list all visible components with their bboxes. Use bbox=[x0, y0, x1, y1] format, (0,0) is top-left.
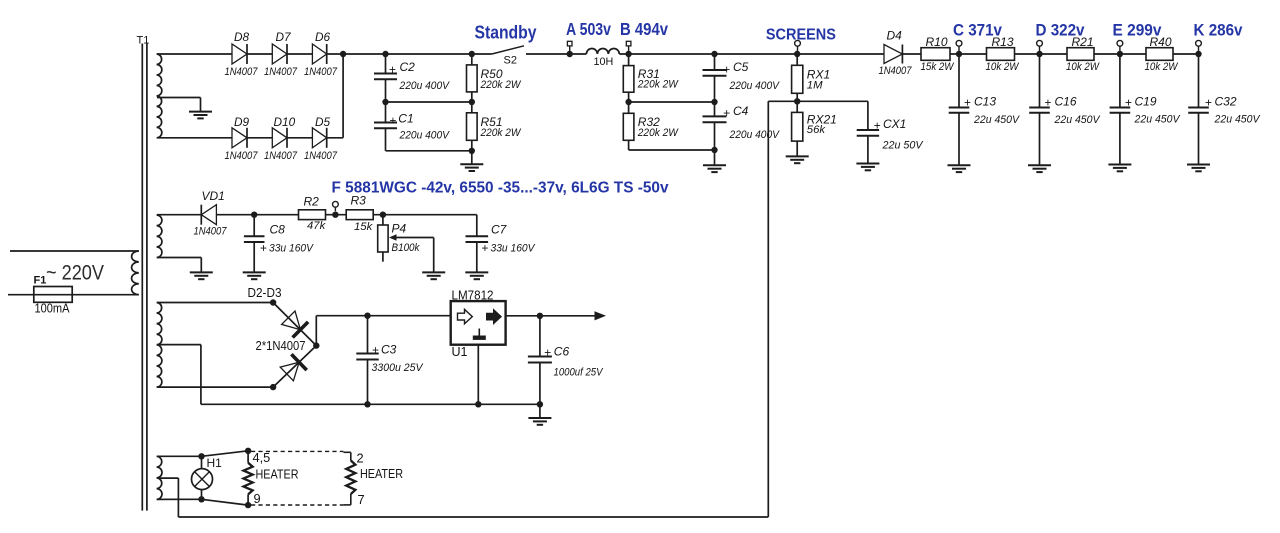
svg-text:HEATER: HEATER bbox=[360, 466, 403, 481]
svg-text:220u 400V: 220u 400V bbox=[729, 80, 781, 92]
svg-text:LM7812: LM7812 bbox=[452, 288, 494, 303]
svg-text:2*1N4007: 2*1N4007 bbox=[256, 338, 306, 353]
svg-text:15k: 15k bbox=[354, 221, 374, 233]
svg-text:D8: D8 bbox=[234, 30, 250, 44]
svg-text:C19: C19 bbox=[1135, 95, 1157, 109]
svg-text:C1: C1 bbox=[398, 112, 413, 126]
svg-text:220k 2W: 220k 2W bbox=[480, 127, 522, 139]
svg-text:33u 160V: 33u 160V bbox=[491, 243, 536, 255]
svg-text:10H: 10H bbox=[594, 56, 614, 68]
svg-text:A 503v: A 503v bbox=[566, 19, 611, 39]
svg-text:7: 7 bbox=[358, 492, 365, 507]
svg-text:+: + bbox=[372, 343, 379, 357]
svg-text:+: + bbox=[544, 345, 551, 359]
svg-text:1N4007: 1N4007 bbox=[304, 66, 338, 78]
svg-text:15k 2W: 15k 2W bbox=[921, 61, 955, 73]
svg-text:C16: C16 bbox=[1055, 95, 1077, 109]
svg-text:47k: 47k bbox=[307, 220, 327, 232]
svg-text:10k 2W: 10k 2W bbox=[986, 61, 1020, 73]
svg-text:+: + bbox=[723, 106, 730, 120]
svg-text:+: + bbox=[874, 119, 881, 133]
svg-text:B 494v: B 494v bbox=[620, 19, 668, 39]
svg-text:1M: 1M bbox=[807, 79, 823, 91]
svg-text:1N4007: 1N4007 bbox=[879, 65, 913, 77]
svg-text:D2-D3: D2-D3 bbox=[248, 286, 282, 300]
svg-text:C5: C5 bbox=[733, 60, 749, 74]
svg-text:R2: R2 bbox=[304, 194, 320, 208]
svg-text:22u 450V: 22u 450V bbox=[1054, 114, 1101, 126]
svg-text:C2: C2 bbox=[400, 60, 416, 74]
svg-text:+: + bbox=[1125, 95, 1132, 109]
svg-text:H1: H1 bbox=[207, 456, 223, 470]
svg-text:1000uf 25V: 1000uf 25V bbox=[554, 367, 604, 379]
svg-text:22u 450V: 22u 450V bbox=[1134, 113, 1181, 125]
svg-text:220u 400V: 220u 400V bbox=[399, 130, 451, 142]
svg-text:S2: S2 bbox=[504, 55, 517, 67]
svg-text:1N4007: 1N4007 bbox=[264, 150, 298, 162]
svg-text:10k 2W: 10k 2W bbox=[1145, 61, 1179, 73]
svg-text:D4: D4 bbox=[887, 29, 903, 43]
svg-text:1N4007: 1N4007 bbox=[225, 66, 259, 78]
svg-text:9: 9 bbox=[254, 491, 261, 506]
svg-text:10k 2W: 10k 2W bbox=[1066, 61, 1100, 73]
svg-text:C3: C3 bbox=[381, 343, 397, 357]
svg-text:+: + bbox=[389, 113, 396, 127]
svg-text:F 5881WGC -42v, 6550 -35...-: F 5881WGC -42v, 6550 -35...-37v, 6L6G TS… bbox=[332, 179, 669, 196]
svg-text:SCREENS: SCREENS bbox=[766, 26, 836, 43]
svg-text:220u 400V: 220u 400V bbox=[729, 129, 781, 141]
svg-text:E 299v: E 299v bbox=[1113, 20, 1162, 39]
svg-text:VD1: VD1 bbox=[202, 189, 225, 203]
svg-text:~ 220V: ~ 220V bbox=[46, 262, 104, 285]
svg-text:220u 400V: 220u 400V bbox=[399, 80, 451, 92]
svg-text:K 286v: K 286v bbox=[1194, 20, 1243, 39]
svg-text:56k: 56k bbox=[807, 124, 827, 136]
svg-text:Standby: Standby bbox=[475, 23, 537, 43]
svg-text:4,5: 4,5 bbox=[253, 450, 271, 465]
svg-text:C32: C32 bbox=[1215, 95, 1237, 109]
svg-text:R10: R10 bbox=[926, 35, 948, 49]
svg-text:1N4007: 1N4007 bbox=[225, 150, 259, 162]
svg-text:100mA: 100mA bbox=[35, 301, 70, 316]
svg-text:22u 450V: 22u 450V bbox=[1214, 113, 1261, 125]
svg-text:22u 450V: 22u 450V bbox=[973, 114, 1020, 126]
svg-text:+: + bbox=[260, 241, 267, 255]
svg-text:3300u 25V: 3300u 25V bbox=[372, 362, 424, 374]
svg-text:C6: C6 bbox=[554, 345, 570, 359]
svg-text:C13: C13 bbox=[974, 95, 996, 109]
svg-text:+: + bbox=[1205, 95, 1212, 109]
svg-text:C8: C8 bbox=[270, 223, 286, 237]
svg-text:U1: U1 bbox=[452, 345, 468, 359]
svg-text:P4: P4 bbox=[392, 221, 407, 235]
svg-text:CX1: CX1 bbox=[883, 117, 906, 131]
svg-text:F1: F1 bbox=[34, 275, 47, 287]
svg-text:D6: D6 bbox=[315, 30, 331, 44]
svg-text:HEATER: HEATER bbox=[256, 467, 299, 482]
svg-text:D 322v: D 322v bbox=[1036, 20, 1085, 39]
svg-text:D5: D5 bbox=[315, 115, 331, 129]
svg-text:D7: D7 bbox=[276, 30, 292, 44]
svg-text:C 371v: C 371v bbox=[953, 20, 1002, 39]
svg-text:T1: T1 bbox=[137, 35, 150, 47]
svg-text:+: + bbox=[964, 95, 971, 109]
svg-text:C7: C7 bbox=[491, 223, 508, 237]
svg-text:+: + bbox=[1044, 95, 1051, 109]
svg-text:220k 2W: 220k 2W bbox=[480, 79, 522, 91]
svg-text:1N4007: 1N4007 bbox=[264, 66, 298, 78]
svg-text:+: + bbox=[389, 62, 396, 76]
svg-text:+: + bbox=[481, 241, 488, 255]
svg-text:B100k: B100k bbox=[392, 242, 421, 254]
svg-text:+: + bbox=[723, 62, 730, 76]
svg-text:2: 2 bbox=[357, 451, 364, 466]
svg-text:33u 160V: 33u 160V bbox=[269, 243, 314, 255]
svg-text:1N4007: 1N4007 bbox=[194, 226, 228, 238]
svg-text:C4: C4 bbox=[733, 104, 749, 118]
svg-text:220k 2W: 220k 2W bbox=[637, 127, 679, 139]
svg-text:D10: D10 bbox=[274, 115, 296, 129]
svg-text:1N4007: 1N4007 bbox=[304, 150, 338, 162]
svg-text:22u 50V: 22u 50V bbox=[882, 140, 924, 152]
svg-text:220k 2W: 220k 2W bbox=[637, 78, 679, 90]
svg-text:D9: D9 bbox=[234, 115, 250, 129]
